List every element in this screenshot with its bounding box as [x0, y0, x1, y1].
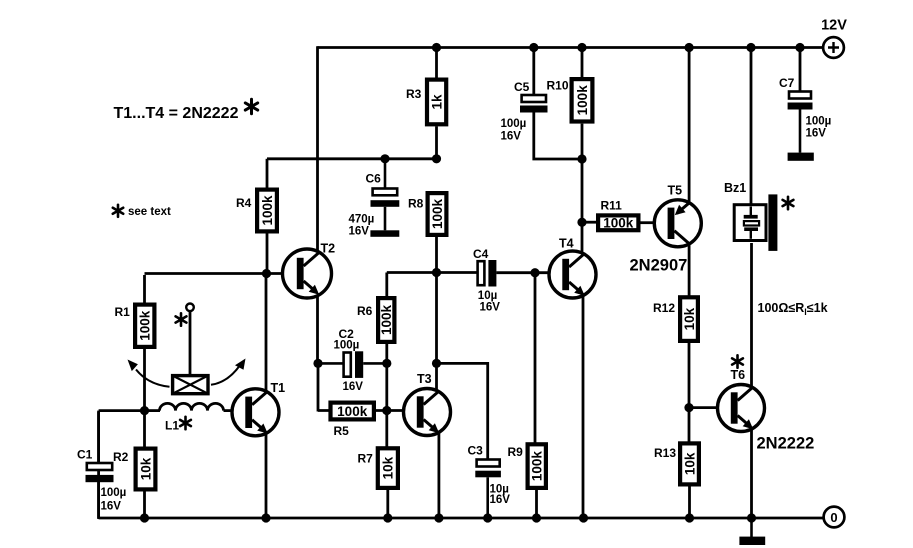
wire C7 top lead: [799, 48, 802, 92]
wire R8 to T3 collector: [435, 237, 438, 391]
wire R6/C4 node horizontal: [387, 271, 477, 274]
transistor T5: [654, 184, 701, 247]
output terminal 0: [824, 507, 845, 528]
svg-text:C1: C1: [77, 448, 93, 462]
wire R1 to R2: [143, 349, 146, 447]
capacitor C1: [77, 448, 126, 513]
resistor R6: [357, 298, 394, 342]
svg-text:10k: 10k: [138, 457, 153, 480]
wire T6 collector to Bz1: [750, 243, 753, 389]
buzzer Bz1: [724, 181, 777, 251]
wire R6 to R7: [385, 344, 388, 447]
svg-text:16V: 16V: [490, 494, 511, 506]
wire Bz1 top lead: [750, 48, 753, 205]
asterisk T6: [732, 355, 743, 367]
svg-text:100k: 100k: [337, 404, 368, 419]
wire T5 emitter to +12V rail: [688, 48, 691, 203]
node C6 junction: [380, 154, 389, 163]
node R4/T1/T2 base junction: [262, 269, 271, 278]
node R2 ground junction: [140, 513, 149, 522]
wire R5 to T3 base: [376, 409, 404, 412]
svg-text:C6: C6: [366, 172, 382, 186]
svg-text:470µ: 470µ: [349, 214, 375, 226]
resistor R1: [115, 305, 155, 347]
svg-text:100µ: 100µ: [501, 118, 527, 130]
transistor T6: [718, 368, 765, 432]
wire R2 bottom lead: [143, 492, 146, 519]
transistor T4: [549, 237, 596, 299]
supply terminal +12V: [821, 18, 847, 58]
wire R6 top lead: [385, 273, 388, 297]
svg-text:R12: R12: [653, 301, 675, 315]
wire C5 to R10 node: [534, 113, 582, 160]
svg-text:R3: R3: [406, 87, 422, 101]
movement arrow left: [128, 360, 170, 387]
svg-text:C7: C7: [779, 76, 795, 90]
node C3 ground junction: [483, 513, 492, 522]
wire T2 base from R1: [145, 272, 284, 275]
svg-text:R9: R9: [508, 445, 524, 459]
node C2 right junction: [382, 359, 391, 368]
asterisk near test point: [176, 313, 187, 325]
wire to T6 base: [689, 406, 719, 409]
svg-text:T4: T4: [559, 237, 574, 251]
wire T3 collector to C3: [437, 363, 488, 459]
svg-text:T1...T4 = 2N2222: T1...T4 = 2N2222: [114, 105, 239, 122]
svg-text:16V: 16V: [343, 381, 364, 393]
svg-text:R5: R5: [334, 424, 350, 438]
svg-text:see text: see text: [128, 206, 171, 218]
wire +12V top rail: [317, 46, 822, 49]
capacitor C5: [501, 80, 548, 143]
node T1 emitter ground junction: [261, 513, 270, 522]
svg-text:16V: 16V: [501, 131, 522, 143]
resistor R13: [654, 443, 699, 484]
svg-text:100k: 100k: [260, 195, 275, 226]
svg-text:10k: 10k: [682, 452, 697, 475]
test point circle: [186, 304, 194, 312]
wire 0V bottom rail: [99, 517, 824, 520]
wire junction to L1: [145, 409, 161, 412]
node T5 supply junction: [685, 43, 694, 52]
svg-text:10µ: 10µ: [478, 290, 497, 302]
wire R4 top lead: [266, 159, 269, 188]
node R12/R13/T6 base junction: [684, 403, 693, 412]
resistor R9: [508, 444, 546, 488]
svg-text:R13: R13: [654, 446, 676, 460]
node T3 emitter ground junction: [434, 513, 443, 522]
inductor L1: [160, 403, 224, 432]
wire C1 lower lead: [97, 482, 100, 518]
svg-text:R1: R1: [115, 305, 131, 319]
node C5/R10 junction: [577, 154, 586, 163]
node C4/R9/T4 base junction: [530, 268, 539, 277]
node R13 ground junction: [685, 513, 694, 522]
wire C1 upper lead: [97, 411, 100, 462]
wire C4 to T4 base: [496, 271, 550, 274]
wire T5 collector to R12: [688, 244, 691, 296]
node R10 supply junction: [577, 43, 586, 52]
capacitor C6: [349, 159, 400, 238]
wire R9 top lead: [534, 273, 537, 443]
wire R3 top lead: [435, 48, 438, 79]
movement arrow right: [211, 359, 246, 385]
node R3/R8 junction: [432, 154, 441, 163]
asterisk L1: [180, 417, 191, 429]
svg-text:T6: T6: [731, 368, 746, 382]
node output ground junction: [747, 513, 756, 522]
capacitor C2: [318, 327, 387, 393]
svg-text:100k: 100k: [575, 85, 590, 116]
wire T3 emitter down: [437, 432, 440, 518]
svg-text:100µ: 100µ: [101, 487, 127, 499]
svg-text:100k: 100k: [430, 198, 445, 229]
wire T6 emitter down: [750, 429, 753, 519]
node T2 emitter/C2/R5 junction: [313, 359, 322, 368]
wire T2 emitter down: [316, 296, 319, 364]
svg-text:R11: R11: [601, 199, 623, 213]
node R1/R2/C1/L1 junction: [140, 406, 149, 415]
capacitor C7: [779, 76, 831, 161]
svg-text:R2: R2: [113, 450, 129, 464]
wire R7 bottom lead: [386, 490, 389, 518]
wire R1 top lead: [143, 275, 146, 303]
sensor element (crossed box): [173, 376, 208, 394]
node R7 ground junction: [383, 513, 392, 522]
svg-text:R6: R6: [357, 304, 373, 318]
svg-text:T2: T2: [321, 242, 336, 256]
resistor R2: [113, 449, 155, 490]
node R9 ground junction: [532, 513, 541, 522]
svg-text:100µ: 100µ: [334, 339, 360, 351]
wire T1 collector up: [265, 275, 268, 393]
svg-text:100k: 100k: [379, 304, 394, 335]
svg-text:C5: C5: [514, 80, 530, 94]
wire T2 emitter to R5: [318, 363, 329, 411]
transistor T3: [404, 372, 451, 436]
svg-text:1k: 1k: [429, 94, 444, 110]
node R5/T3 base junction: [382, 406, 391, 415]
svg-text:100Ω≤Rl≤1k: 100Ω≤Rl≤1k: [758, 301, 828, 317]
resistor R12: [653, 297, 698, 341]
node C7 supply junction: [795, 43, 804, 52]
resistor R5: [331, 403, 374, 438]
svg-text:16V: 16V: [806, 128, 827, 140]
svg-text:T5: T5: [668, 184, 683, 198]
resistor R8: [408, 193, 446, 235]
svg-text:100k: 100k: [603, 216, 634, 231]
wire R10 to T4 collector: [581, 124, 584, 255]
svg-text:12V: 12V: [821, 18, 847, 34]
svg-text:R8: R8: [408, 197, 424, 211]
svg-text:C3: C3: [468, 444, 484, 458]
wire T4 emitter down: [582, 295, 585, 518]
label see text: [113, 205, 171, 218]
resistor R3: [406, 80, 446, 125]
resistor R4: [236, 190, 277, 232]
wire R3 bottom lead: [435, 126, 438, 158]
svg-text:100µ: 100µ: [806, 116, 832, 128]
node T3 collector/C3 junction: [432, 359, 441, 368]
node R3 supply junction: [432, 43, 441, 52]
svg-text:2N2907: 2N2907: [630, 257, 688, 275]
svg-text:2N2222: 2N2222: [757, 435, 815, 453]
wire C5 top lead: [532, 48, 535, 95]
wire R11 to T5 base: [641, 221, 656, 224]
svg-text:R10: R10: [547, 79, 569, 93]
transistor T2: [283, 242, 336, 299]
svg-text:L1: L1: [165, 419, 179, 433]
svg-text:100k: 100k: [530, 451, 545, 482]
svg-text:C4: C4: [473, 247, 489, 261]
resistor R10: [547, 79, 593, 122]
svg-text:10k: 10k: [381, 456, 396, 479]
node R8/R6/C4 junction: [432, 268, 441, 277]
wire R9 bottom lead: [535, 490, 538, 518]
ground: [739, 518, 765, 545]
svg-text:10k: 10k: [682, 307, 697, 330]
asterisk header: [245, 99, 257, 113]
wire R4 bottom lead: [266, 234, 269, 274]
wire R13 bottom lead: [688, 487, 691, 519]
node R11/T4 junction: [577, 218, 586, 227]
node C5 supply junction: [529, 43, 538, 52]
node T4 emitter ground junction: [579, 513, 588, 522]
svg-text:16V: 16V: [480, 302, 501, 314]
wire L1 to T1 base: [224, 409, 233, 412]
asterisk Bz1: [783, 197, 794, 209]
capacitor C3: [468, 444, 511, 519]
wire C1 branch top: [99, 411, 145, 519]
wire T2 collector to +12V rail: [316, 46, 319, 252]
wire test point to sensor: [189, 311, 192, 374]
svg-text:0: 0: [830, 510, 837, 525]
wire node to R11: [582, 221, 597, 224]
resistor R11: [598, 199, 638, 231]
capacitor C4: [473, 247, 500, 314]
svg-text:100k: 100k: [138, 310, 153, 341]
svg-text:16V: 16V: [101, 501, 122, 513]
svg-text:16V: 16V: [349, 226, 370, 238]
svg-text:R7: R7: [358, 452, 374, 466]
wire R12 to R13: [688, 343, 691, 442]
wire filtered supply sub-rail: [267, 157, 437, 160]
resistor R7: [358, 448, 398, 488]
wire R10 top lead: [581, 48, 584, 79]
svg-text:T3: T3: [417, 372, 432, 386]
svg-text:T1: T1: [271, 381, 286, 395]
transistor T1: [232, 381, 285, 436]
svg-text:R4: R4: [236, 196, 252, 210]
node Bz1 supply junction: [746, 43, 755, 52]
svg-text:Bz1: Bz1: [724, 181, 746, 195]
wire T1 emitter down: [265, 432, 268, 518]
